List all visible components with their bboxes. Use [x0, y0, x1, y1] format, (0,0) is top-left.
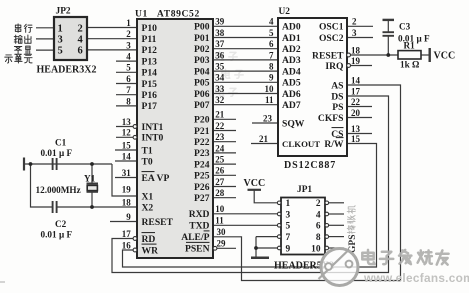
svg-text:P06: P06 [194, 89, 210, 100]
svg-text:13: 13 [122, 117, 132, 127]
svg-text:T0: T0 [142, 156, 153, 167]
svg-text:P00: P00 [194, 22, 210, 33]
svg-text:3: 3 [126, 40, 131, 50]
svg-text:19: 19 [122, 184, 132, 194]
svg-text:14: 14 [122, 151, 132, 161]
svg-text:6: 6 [126, 74, 131, 84]
svg-text:2: 2 [316, 199, 321, 209]
svg-text:3: 3 [58, 35, 63, 46]
svg-text:RESET: RESET [312, 50, 344, 61]
svg-text:DS: DS [331, 91, 343, 102]
svg-text:P10: P10 [142, 23, 158, 34]
svg-text:9: 9 [269, 73, 274, 83]
svg-text:U1 AT89C52: U1 AT89C52 [135, 9, 200, 20]
svg-text:9: 9 [286, 244, 291, 254]
svg-text:R1: R1 [404, 41, 416, 51]
svg-text:5: 5 [58, 46, 63, 57]
svg-text:4: 4 [126, 52, 131, 62]
svg-text:CKFS: CKFS [318, 113, 344, 124]
svg-text:μ F: μ F [59, 148, 73, 158]
svg-text:38: 38 [215, 28, 225, 38]
svg-text:11: 11 [265, 95, 274, 105]
svg-text:AD7: AD7 [282, 100, 301, 111]
svg-text:IRQ: IRQ [325, 61, 344, 72]
svg-text:2: 2 [352, 17, 357, 27]
svg-text:P12: P12 [142, 45, 158, 56]
svg-text:10: 10 [311, 244, 321, 254]
svg-text:P04: P04 [194, 66, 210, 77]
svg-text:X2: X2 [142, 202, 154, 213]
svg-text:P02: P02 [194, 44, 210, 55]
svg-text:39: 39 [215, 17, 225, 27]
svg-text:2: 2 [78, 23, 83, 34]
svg-text:RESET: RESET [142, 217, 174, 228]
svg-text:U2: U2 [279, 7, 291, 17]
svg-text:28: 28 [215, 188, 225, 198]
svg-text:26: 26 [215, 166, 225, 176]
svg-text:Y1: Y1 [84, 174, 96, 184]
svg-text:14: 14 [351, 75, 361, 85]
svg-text:P11: P11 [142, 34, 157, 45]
svg-text:ALE/P: ALE/P [181, 232, 209, 243]
svg-text:AD4: AD4 [282, 66, 301, 77]
svg-text:AD3: AD3 [282, 55, 301, 66]
svg-text:PS: PS [332, 102, 343, 113]
svg-text:PSEN: PSEN [185, 244, 210, 255]
svg-text:8: 8 [316, 233, 321, 243]
svg-text:P01: P01 [194, 33, 210, 44]
svg-text:C2: C2 [55, 219, 67, 229]
svg-text:11: 11 [215, 216, 224, 226]
svg-text:15: 15 [351, 134, 361, 144]
svg-text:3: 3 [352, 28, 357, 38]
svg-text:RXD: RXD [189, 209, 210, 220]
svg-text:VCC: VCC [434, 51, 456, 62]
svg-text:10: 10 [265, 84, 275, 94]
svg-text:9: 9 [126, 212, 131, 222]
svg-text:X1: X1 [142, 191, 154, 202]
svg-text:P03: P03 [194, 55, 210, 66]
svg-text:OSC2: OSC2 [319, 33, 344, 44]
svg-text:www.elecfans.com: www.elecfans.com [363, 271, 469, 285]
svg-text:C3: C3 [399, 22, 411, 32]
svg-text:AD5: AD5 [282, 78, 301, 89]
svg-text:P25: P25 [194, 171, 210, 182]
svg-text:OSC1: OSC1 [319, 22, 344, 33]
svg-text:7: 7 [269, 50, 274, 60]
svg-text:18: 18 [122, 197, 132, 207]
svg-text:8: 8 [269, 62, 274, 72]
svg-text:33: 33 [215, 84, 225, 94]
svg-text:WR: WR [142, 245, 160, 256]
svg-text:23: 23 [263, 113, 273, 123]
svg-text:R/W: R/W [324, 139, 344, 150]
svg-text:7: 7 [286, 233, 291, 243]
svg-text:DS12C887: DS12C887 [284, 160, 336, 171]
svg-text:P23: P23 [194, 148, 210, 159]
svg-text:4: 4 [269, 17, 274, 27]
svg-text:6: 6 [78, 46, 83, 57]
svg-text:0.01: 0.01 [41, 230, 57, 240]
svg-text:22: 22 [351, 97, 361, 107]
svg-text:TXD: TXD [189, 221, 209, 232]
svg-text:P05: P05 [194, 78, 210, 89]
svg-text:34: 34 [215, 73, 225, 83]
svg-text:6: 6 [269, 39, 274, 49]
svg-text:5: 5 [269, 28, 274, 38]
svg-text:JP2: JP2 [56, 7, 71, 17]
svg-text:P07: P07 [194, 100, 210, 111]
svg-text:3: 3 [286, 210, 291, 220]
svg-text:CLKOUT: CLKOUT [282, 139, 320, 149]
svg-text:22: 22 [215, 121, 225, 131]
svg-text:EA VP: EA VP [142, 173, 170, 184]
svg-text:23: 23 [215, 132, 225, 142]
svg-text:35: 35 [215, 62, 225, 72]
svg-text:6: 6 [316, 222, 321, 232]
svg-text:P15: P15 [142, 79, 158, 90]
svg-text:P16: P16 [142, 90, 158, 101]
svg-text:RD: RD [142, 234, 156, 245]
svg-text:18: 18 [351, 45, 361, 55]
svg-text:17: 17 [122, 229, 132, 239]
svg-text:12.000MHz: 12.000MHz [36, 185, 81, 195]
svg-text:30: 30 [217, 227, 227, 237]
svg-text:29: 29 [217, 239, 227, 249]
svg-text:24: 24 [215, 143, 225, 153]
svg-text:13: 13 [351, 124, 361, 134]
svg-text:AD1: AD1 [282, 33, 301, 44]
svg-text:AS: AS [331, 80, 343, 91]
svg-text:5: 5 [286, 222, 291, 232]
svg-text:P20: P20 [194, 115, 210, 126]
svg-text:17: 17 [351, 86, 361, 96]
svg-text:21: 21 [215, 110, 225, 120]
svg-text:37: 37 [215, 39, 225, 49]
svg-text:4: 4 [316, 210, 321, 220]
svg-text:4: 4 [78, 35, 84, 46]
svg-text:16: 16 [122, 240, 132, 250]
svg-text:1: 1 [126, 18, 131, 28]
svg-text:12: 12 [122, 128, 132, 138]
svg-text:20: 20 [351, 108, 361, 118]
svg-text:C1: C1 [55, 138, 67, 148]
svg-text:32: 32 [215, 95, 225, 105]
svg-text:5: 5 [126, 63, 131, 73]
svg-text:P21: P21 [194, 126, 210, 137]
svg-text:27: 27 [215, 177, 225, 187]
svg-text:31: 31 [122, 168, 132, 178]
svg-text:7: 7 [126, 85, 131, 95]
svg-text:SQW: SQW [282, 118, 305, 129]
svg-text:P22: P22 [194, 137, 210, 148]
svg-text:10: 10 [215, 204, 225, 214]
svg-text:P24: P24 [194, 159, 210, 170]
svg-text:P17: P17 [142, 101, 158, 112]
svg-text:μ F: μ F [59, 230, 73, 240]
svg-text:INT1: INT1 [142, 122, 164, 133]
svg-text:INT0: INT0 [142, 133, 164, 144]
svg-text:P14: P14 [142, 68, 158, 79]
svg-text:VCC: VCC [244, 178, 266, 189]
svg-text:8: 8 [126, 96, 131, 106]
svg-text:19: 19 [351, 56, 361, 66]
svg-text:AD2: AD2 [282, 44, 301, 55]
svg-text:1: 1 [286, 199, 291, 209]
svg-text:25: 25 [215, 155, 225, 165]
svg-text:15: 15 [122, 140, 132, 150]
svg-text:36: 36 [215, 50, 225, 60]
svg-text:2: 2 [126, 29, 131, 39]
svg-text:1k Ω: 1k Ω [400, 60, 419, 70]
svg-text:HEADER3X2: HEADER3X2 [37, 65, 97, 76]
svg-text:P13: P13 [142, 56, 158, 67]
svg-text:P26: P26 [194, 182, 210, 193]
svg-text:AD0: AD0 [282, 22, 301, 33]
svg-text:0.01: 0.01 [41, 148, 57, 158]
svg-text:JP1: JP1 [297, 185, 312, 195]
svg-text:T1: T1 [142, 145, 153, 156]
svg-text:P27: P27 [194, 193, 210, 204]
svg-text:AD6: AD6 [282, 89, 301, 100]
svg-text:21: 21 [259, 134, 269, 144]
svg-text:1: 1 [58, 23, 63, 34]
svg-text:μ F: μ F [417, 34, 431, 44]
